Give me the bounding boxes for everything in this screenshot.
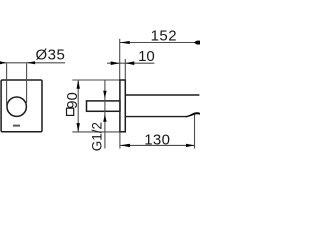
dimension 10 left arrow [111, 61, 120, 65]
dimension G1/2 line [104, 81, 106, 149]
dimension Ø35 left arrow [0, 61, 7, 64]
dimension 130 right arrow [186, 144, 195, 147]
svg-text:G1/2: G1/2 [90, 122, 105, 151]
dimension 10 extension line right [124, 59, 126, 80]
dimension 152 left arrow [120, 41, 130, 44]
front-view plate (rounded square escutcheon) [1, 80, 42, 132]
KEUCO logo text on plate [13, 125, 20, 127]
spout tube top line [125, 94, 199, 96]
dimension 130 left arrow [120, 144, 130, 147]
dimension square-90 bottom extension line [72, 131, 119, 133]
dimension 152 right arrow (clipped at edge) [194, 41, 200, 45]
dimension Ø35 extension line right [26, 63, 28, 103]
dimension Ø35 line [0, 62, 65, 64]
svg-text:10: 10 [138, 48, 155, 65]
svg-text:Ø35: Ø35 [36, 47, 66, 64]
svg-text:152: 152 [151, 27, 178, 44]
dimension 130 extension line left (below plate) [119, 132, 121, 149]
G1/2 inlet stub [87, 101, 120, 111]
dimension 10 right arrow [125, 61, 134, 65]
dimension square-90 up arrow [77, 80, 80, 89]
dimension 10 extension line left (wall face, shared with 152) [119, 39, 121, 80]
knob circle (handle front view) [7, 97, 26, 116]
spout tube bottom line [125, 116, 187, 118]
dimension square-90 top extension line [72, 79, 119, 81]
dimension square-90 down arrow [77, 123, 80, 132]
svg-text:130: 130 [144, 132, 170, 149]
dimension 130 extension line right (below spout tip) [194, 115, 196, 149]
dimension 10 line [107, 62, 154, 64]
side-view wall plate [120, 80, 125, 132]
dimension Ø35 right arrow [27, 61, 35, 64]
spout tip curved lip [186, 112, 200, 117]
dimension Ø35 extension line left [6, 63, 8, 106]
dimension square-90 line [77, 80, 79, 132]
dimension 130 line [120, 144, 195, 146]
dimension 152 line [120, 42, 200, 44]
dimension square symbol [67, 108, 74, 115]
dimension G1/2 up arrow [103, 114, 106, 122]
dimension G1/2 down arrow [103, 91, 106, 99]
svg-text:90: 90 [64, 92, 81, 109]
